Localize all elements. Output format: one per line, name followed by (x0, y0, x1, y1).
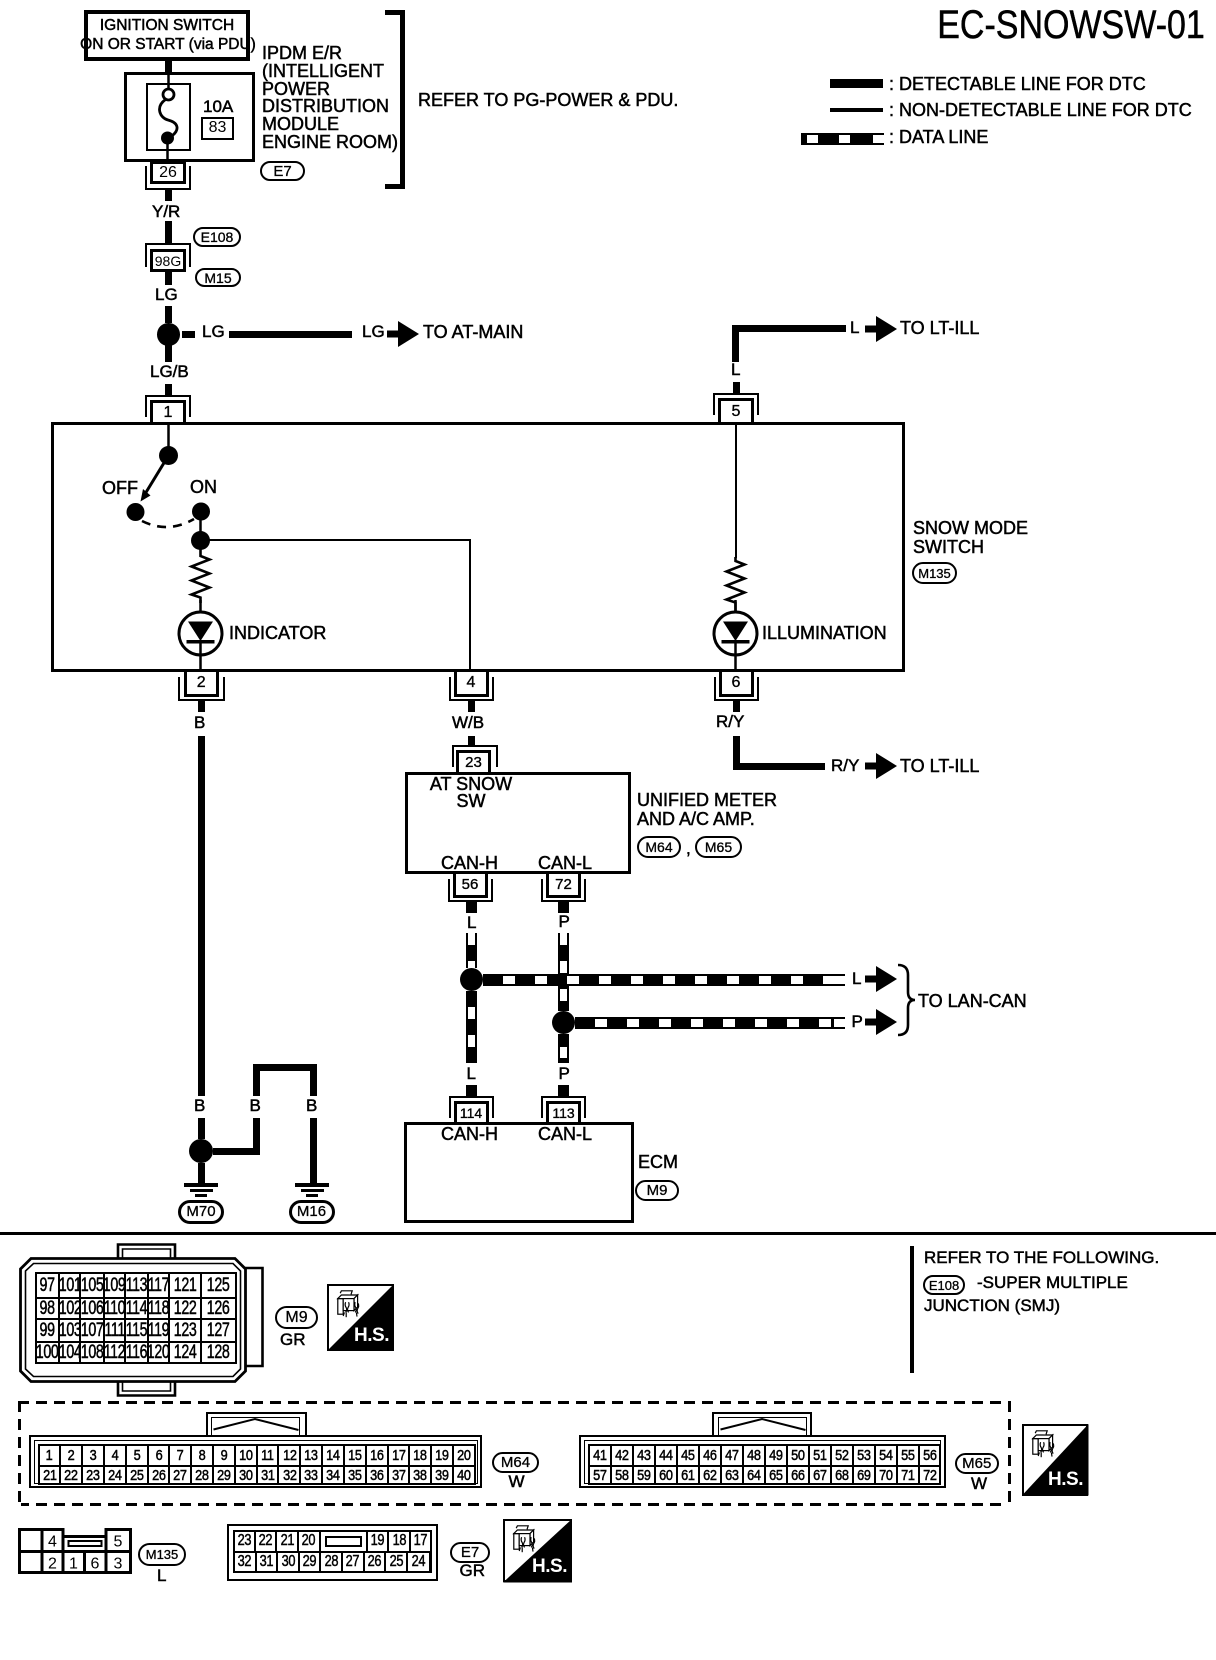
refer separator line (910, 1246, 914, 1373)
U-shaped top (253, 1064, 317, 1071)
wire label P lower (559, 1065, 570, 1082)
ON label (190, 478, 217, 496)
connector M65 pin grid (588, 1444, 942, 1486)
svg-text:1: 1 (69, 1556, 78, 1573)
connector M135 ref oval (138, 1543, 186, 1566)
connector M9 pin grid (35, 1272, 237, 1364)
illumination branch wire (735, 422, 738, 558)
pin 113 (541, 1096, 586, 1118)
pin 4 (454, 672, 489, 697)
arrow L (865, 966, 897, 992)
wire junction to pin 4 column (201, 539, 471, 542)
svg-text:6: 6 (91, 1556, 100, 1573)
CAN-L data line upper (558, 933, 569, 1011)
connector M135 face view (10, 1520, 140, 1580)
pivot node (159, 446, 178, 465)
pin 26 (150, 161, 186, 184)
arrow P (865, 1009, 897, 1035)
connector M65 ref oval (955, 1453, 999, 1474)
right lug (245, 1268, 263, 1366)
ground junction node (189, 1139, 213, 1163)
legend: non-detectable text (889, 101, 1192, 119)
pin 2 (184, 672, 220, 697)
title EC-SNOWSW-01 (937, 5, 1205, 45)
wire: ignition box to IPDM (165, 61, 172, 72)
wire from pin 1 (167, 423, 170, 448)
connector M64 pin grid (38, 1444, 476, 1486)
wire to ground M70 (198, 1163, 205, 1183)
CAN-H data line lower (466, 991, 477, 1063)
connector E108 oval (193, 227, 241, 247)
E108 ref oval (923, 1275, 965, 1295)
dashed group box (18, 1401, 1012, 1404)
unified meter AT SNOW SW box (405, 772, 631, 874)
branch wire to AT-MAIN (229, 331, 352, 338)
arrow to LT-ILL lower (865, 753, 897, 779)
connector M65 oval (695, 836, 742, 858)
connector M65 body (579, 1435, 946, 1488)
OFF label (102, 479, 138, 497)
connector M135 oval (912, 562, 957, 584)
wire label LG/B (150, 363, 189, 380)
CAN-L pin label (538, 854, 592, 872)
connector 98G (SMJ) (145, 243, 191, 267)
IPDM annotation bracket (400, 10, 405, 189)
switch arm (145, 456, 169, 495)
brace to LAN-CAN (896, 963, 916, 1037)
ground symbol M16 (295, 1183, 329, 1187)
stub above pin 114 (466, 1085, 477, 1096)
comma (686, 840, 691, 857)
fuse box (146, 83, 191, 151)
junction node P (552, 1011, 576, 1035)
connector M65 bump (712, 1412, 812, 1435)
U-shaped B wire left leg (253, 1066, 260, 1096)
wire ON to junction (199, 520, 202, 540)
switch contacts (80, 420, 240, 550)
legend: detectable text (889, 75, 1146, 93)
wire label L (467, 914, 476, 931)
destination TO LT-ILL lower (900, 757, 979, 775)
legend: non-detectable line sample (830, 108, 883, 113)
wire label L lower (467, 1065, 476, 1082)
wire R/Y corner (733, 736, 740, 770)
INDICATOR label (229, 624, 326, 642)
label P (852, 1013, 863, 1030)
UNIFIED METER AND A/C AMP label (637, 791, 777, 828)
legend: data line sample (801, 133, 884, 145)
branch LG dash (182, 331, 195, 338)
snow mode switch box (51, 422, 905, 673)
wire below junction (165, 345, 172, 362)
connector M9 face view body (0, 1240, 280, 1410)
wire label W/B (452, 714, 484, 731)
junction node L (460, 968, 484, 992)
wire label LG (155, 286, 178, 303)
wire stub below 98G (165, 272, 172, 285)
wire junction to U (213, 1148, 260, 1155)
ON contact (192, 503, 210, 521)
ground connector M70 oval (178, 1200, 224, 1224)
pin 6 (719, 672, 754, 697)
svg-text:4: 4 (48, 1534, 57, 1551)
wire label R/Y 2 (831, 757, 859, 774)
M64 color W (509, 1473, 525, 1490)
junction node LG (157, 323, 180, 346)
body outer (21, 1259, 246, 1382)
wire segment (165, 384, 172, 395)
H.S. icon M9 (327, 1284, 394, 1351)
branch label LG 2 (362, 323, 385, 340)
ECM CAN-H label (441, 1125, 498, 1143)
ignition switch supply box (84, 10, 250, 61)
IPDM text (262, 45, 398, 152)
svg-text:2: 2 (48, 1556, 57, 1573)
H.S. icon M64/M65 (1022, 1424, 1089, 1496)
body inner (26, 1264, 241, 1377)
M65 color W (971, 1475, 987, 1492)
connector E7 ref oval (450, 1542, 490, 1563)
data line L to LAN-CAN (483, 974, 845, 986)
connector M15 oval (195, 268, 241, 287)
stub above pin 113 (558, 1085, 569, 1096)
connector M64 body (29, 1435, 482, 1488)
legend: data line text (889, 128, 988, 146)
M135 color L (157, 1567, 166, 1584)
branch label LG (202, 323, 225, 340)
refer note (418, 91, 678, 109)
U right leg (310, 1071, 317, 1096)
illumination resistor (715, 553, 757, 613)
illumination feed corner wire (732, 325, 739, 362)
connector E7 oval (260, 161, 305, 181)
wire down to pin 4 (469, 540, 472, 672)
indicator resistor (180, 545, 222, 605)
fuse 10A symbol (140, 70, 220, 170)
destination TO LAN-CAN (918, 992, 1027, 1010)
bottom tab (118, 1382, 175, 1396)
refer to the following text (924, 1249, 1159, 1266)
SNOW MODE SWITCH label (913, 519, 1028, 556)
data line P to LAN-CAN (575, 1017, 845, 1029)
fuse number 83 box (201, 117, 234, 140)
H.S. icon E7 (503, 1519, 572, 1583)
pin 5 of snow mode switch (713, 393, 759, 415)
CAN-H pin label (441, 854, 498, 872)
wire below pin 26 (165, 190, 172, 201)
wire label R/Y (716, 713, 744, 730)
pin 1 of snow mode switch (145, 395, 191, 417)
junction node below ON (191, 531, 210, 550)
wire segment (165, 306, 172, 323)
pin 72 (546, 874, 581, 898)
ILLUMINATION label (762, 624, 887, 642)
wire label P (559, 913, 570, 930)
arrow to AT-MAIN (387, 321, 419, 347)
connector M64 bump (206, 1412, 307, 1435)
OFF contact (127, 503, 145, 521)
pin 23 (452, 745, 498, 767)
M9 color GR (280, 1331, 306, 1348)
wire W/B short (468, 736, 475, 745)
wire segment (165, 221, 172, 243)
wire dash above pin 5 (733, 382, 740, 393)
wire B lower (198, 1118, 205, 1139)
connector E7 face view (227, 1524, 438, 1581)
label L (852, 970, 861, 987)
wire label L (850, 319, 859, 336)
fuse rating 10A (203, 98, 233, 115)
ECM label (638, 1153, 678, 1171)
ground connector M16 oval (289, 1200, 335, 1224)
connector M9 ref oval (275, 1306, 318, 1329)
top tab (118, 1245, 175, 1259)
wire B long (198, 736, 205, 1096)
E7 color GR (460, 1562, 486, 1579)
wire label Y/R (152, 203, 180, 220)
connector M64 oval (637, 836, 681, 858)
destination TO AT-MAIN (423, 323, 523, 341)
CAN-H data line upper (466, 933, 477, 968)
svg-text:3: 3 (114, 1556, 123, 1573)
ECM box (404, 1122, 634, 1223)
svg-text:5: 5 (114, 1534, 123, 1551)
wire label B (194, 714, 205, 731)
dashed throw arc (142, 519, 194, 527)
pin 56 (453, 874, 488, 898)
ECM CAN-L label (538, 1125, 592, 1143)
wire label L above pin 5 (731, 361, 740, 378)
CAN-L data line lower (558, 1034, 569, 1063)
connector M64 ref oval (492, 1452, 539, 1473)
B labels row (194, 1097, 205, 1114)
destination TO LT-ILL (900, 319, 979, 337)
section divider (0, 1232, 1216, 1236)
indicator LED lamp (170, 600, 232, 675)
connector M9 oval (635, 1180, 679, 1201)
ground symbol M70 (184, 1183, 218, 1187)
illumination LED lamp (705, 600, 767, 675)
arrow to LT-ILL top (865, 316, 897, 342)
legend: detectable line sample (830, 79, 883, 88)
super multiple junction text (977, 1274, 1128, 1291)
pin 114 (449, 1096, 494, 1118)
IPDM E/R box (124, 72, 255, 162)
